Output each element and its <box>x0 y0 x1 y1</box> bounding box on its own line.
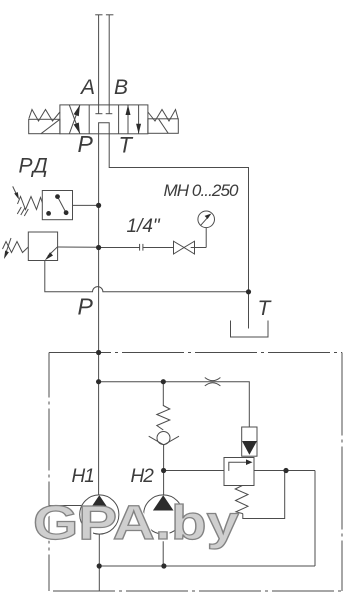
svg-text:H2: H2 <box>131 466 155 487</box>
svg-text:H1: H1 <box>72 466 94 487</box>
svg-text:РД: РД <box>19 155 50 178</box>
svg-text:T: T <box>258 297 273 320</box>
svg-text:A: A <box>79 76 95 99</box>
svg-text:P: P <box>78 131 94 157</box>
svg-text:1/4": 1/4" <box>127 216 161 237</box>
svg-text:МН 0...250: МН 0...250 <box>164 181 240 200</box>
svg-text:GPA.by: GPA.by <box>33 497 239 550</box>
svg-text:B: B <box>114 76 128 99</box>
svg-text:P: P <box>78 294 94 320</box>
svg-text:T: T <box>119 133 134 158</box>
